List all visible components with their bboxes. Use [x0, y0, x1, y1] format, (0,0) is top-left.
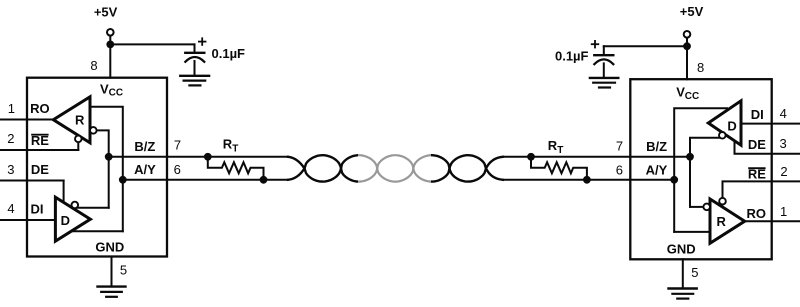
wire pin5 GND stem (right) — [682, 259, 684, 288]
driver D triangle (right U2) — [708, 101, 741, 145]
twisted pair cable (black sections) — [288, 155, 503, 181]
node: RT at B/Z (left) — [204, 153, 212, 161]
svg-text:+5V: +5V — [680, 4, 704, 19]
plus polarity mark (right capacitor) — [592, 41, 599, 48]
svg-text:RO: RO — [747, 206, 767, 221]
wire driver Z output to B/Z (left) — [75, 207, 109, 209]
RT label (right) — [548, 138, 564, 156]
wire +5V stem (left) — [109, 36, 111, 78]
svg-text:6: 6 — [174, 162, 181, 177]
svg-text:DE: DE — [31, 162, 49, 177]
node: +5V junction dot (left) — [106, 41, 114, 49]
svg-text:3: 3 — [7, 162, 14, 177]
svg-text:1: 1 — [780, 204, 787, 219]
ground symbol (right capacitor) — [590, 78, 618, 88]
svg-text:A/Y: A/Y — [646, 163, 668, 178]
svg-text:A/Y: A/Y — [134, 162, 156, 177]
wire +5V to capacitor (left) — [110, 43, 194, 45]
svg-text:+5V: +5V — [94, 4, 118, 19]
receiver B input bubble (left) — [90, 127, 97, 134]
Vcc label (right) — [676, 85, 699, 103]
wire B/Z line (right) — [503, 156, 690, 158]
svg-text:DI: DI — [31, 202, 44, 217]
IC U2 box (right transceiver) — [630, 79, 771, 259]
termination resistor RT (left) — [208, 157, 264, 180]
RE label with overline (right) — [748, 166, 766, 181]
receiver enable bubble RE (right) — [719, 198, 726, 205]
wire receiver B input (right) — [690, 206, 703, 208]
driver D triangle (left U1) — [55, 197, 90, 241]
receiver enable bubble RE (left) — [75, 136, 82, 143]
wire B/Z line (left) — [109, 156, 288, 158]
svg-text:3: 3 — [779, 136, 786, 151]
svg-text:2: 2 — [780, 164, 787, 179]
svg-text:5: 5 — [120, 263, 127, 278]
wire driver Y output to A/Y (right) — [674, 108, 727, 232]
svg-text:R: R — [548, 138, 558, 153]
wire driver Z output to B/Z (right) — [690, 138, 719, 207]
capacitor C2 0.1uF (right) — [594, 46, 613, 78]
svg-text:T: T — [557, 145, 563, 156]
svg-text:D: D — [61, 213, 70, 228]
node: RT at A/Y (left) — [260, 176, 268, 184]
+5V terminal circle (right) — [684, 31, 691, 38]
svg-text:DI: DI — [751, 107, 764, 122]
svg-text:4: 4 — [780, 106, 787, 121]
driver Z inverting bubble (right) — [719, 132, 726, 139]
receiver R triangle (right U2) — [710, 199, 745, 243]
wire +5V to capacitor (right) — [604, 45, 687, 47]
node: A/Y junction at receiver (right) — [670, 176, 678, 184]
svg-text:GND: GND — [667, 242, 696, 257]
wire pin4 DI (left) — [0, 219, 55, 221]
wire driver Y output to A/Y (left) — [72, 230, 123, 232]
svg-text:8: 8 — [697, 60, 704, 75]
IC U1 box (left transceiver) — [27, 78, 167, 257]
svg-text:B/Z: B/Z — [646, 139, 667, 154]
svg-text:R: R — [717, 214, 727, 229]
wire receiver A input (right) — [674, 231, 710, 233]
wire pin2 RE (left) — [0, 149, 78, 151]
wire DE stub to driver (left) — [63, 181, 65, 203]
capacitor C1 0.1uF (left) — [185, 44, 204, 75]
node: +5V junction dot (right) — [683, 42, 691, 50]
svg-text:7: 7 — [174, 138, 181, 153]
svg-text:R: R — [75, 112, 85, 127]
wire receiver A input from A/Y (left) — [90, 107, 123, 231]
wire pin3 DE (right) — [735, 141, 800, 154]
wire +5V stem (right) — [686, 38, 688, 80]
ground symbol (right IC) — [669, 289, 697, 299]
node: RT at B/Z (right) — [527, 153, 535, 161]
termination resistor RT (right) — [531, 157, 587, 180]
svg-text:RO: RO — [30, 101, 50, 116]
wire A/Y line (left) — [123, 179, 288, 181]
svg-text:5: 5 — [691, 265, 698, 280]
wire pin1 RO (left) — [0, 119, 53, 121]
ground symbol (left capacitor) — [180, 76, 209, 86]
+5V terminal circle (left) — [107, 29, 114, 36]
svg-text:CC: CC — [109, 88, 123, 99]
svg-text:7: 7 — [616, 139, 623, 154]
node: A/Y junction at receiver (left) — [119, 176, 127, 184]
wire pin1 RO (right) — [745, 220, 800, 222]
twisted pair cable (gray broken middle) — [288, 155, 503, 181]
node: B/Z junction at receiver (left) — [105, 153, 113, 161]
svg-text:0.1µF: 0.1µF — [212, 46, 246, 61]
Vcc label (left) — [100, 81, 123, 98]
wire pin4 DI (right) — [741, 123, 800, 125]
driver Z inverting bubble (left) — [72, 202, 79, 209]
RE label with overline (left) — [31, 133, 49, 148]
wire pin5 GND stem (left) — [111, 257, 113, 287]
svg-text:4: 4 — [7, 201, 14, 216]
ground symbol (left IC) — [98, 287, 126, 297]
node: B/Z junction at receiver (right) — [686, 153, 694, 161]
node: RT at A/Y (right) — [583, 176, 591, 184]
svg-text:0.1µF: 0.1µF — [555, 49, 589, 64]
svg-text:CC: CC — [685, 91, 699, 102]
svg-text:B/Z: B/Z — [134, 139, 155, 154]
RT label (left) — [223, 137, 239, 155]
wire pin2 RE (right) — [723, 181, 800, 201]
svg-text:DE: DE — [748, 137, 766, 152]
wire receiver B input from B/Z (left) — [97, 130, 109, 207]
wire A/Y line (right) — [503, 179, 674, 181]
wire pin3 DE (left) — [0, 180, 64, 182]
svg-text:GND: GND — [95, 240, 124, 255]
svg-text:R: R — [223, 137, 233, 152]
receiver R triangle (left U1) — [53, 97, 90, 143]
svg-text:D: D — [727, 118, 736, 133]
svg-text:1: 1 — [8, 101, 15, 116]
svg-text:2: 2 — [7, 131, 14, 146]
svg-text:8: 8 — [90, 58, 97, 73]
plus polarity mark (left capacitor) — [199, 38, 206, 45]
svg-text:6: 6 — [616, 163, 623, 178]
wire RE stub to enable bubble (left) — [77, 139, 79, 150]
svg-text:T: T — [232, 144, 238, 155]
receiver B input bubble (right) — [703, 204, 710, 211]
